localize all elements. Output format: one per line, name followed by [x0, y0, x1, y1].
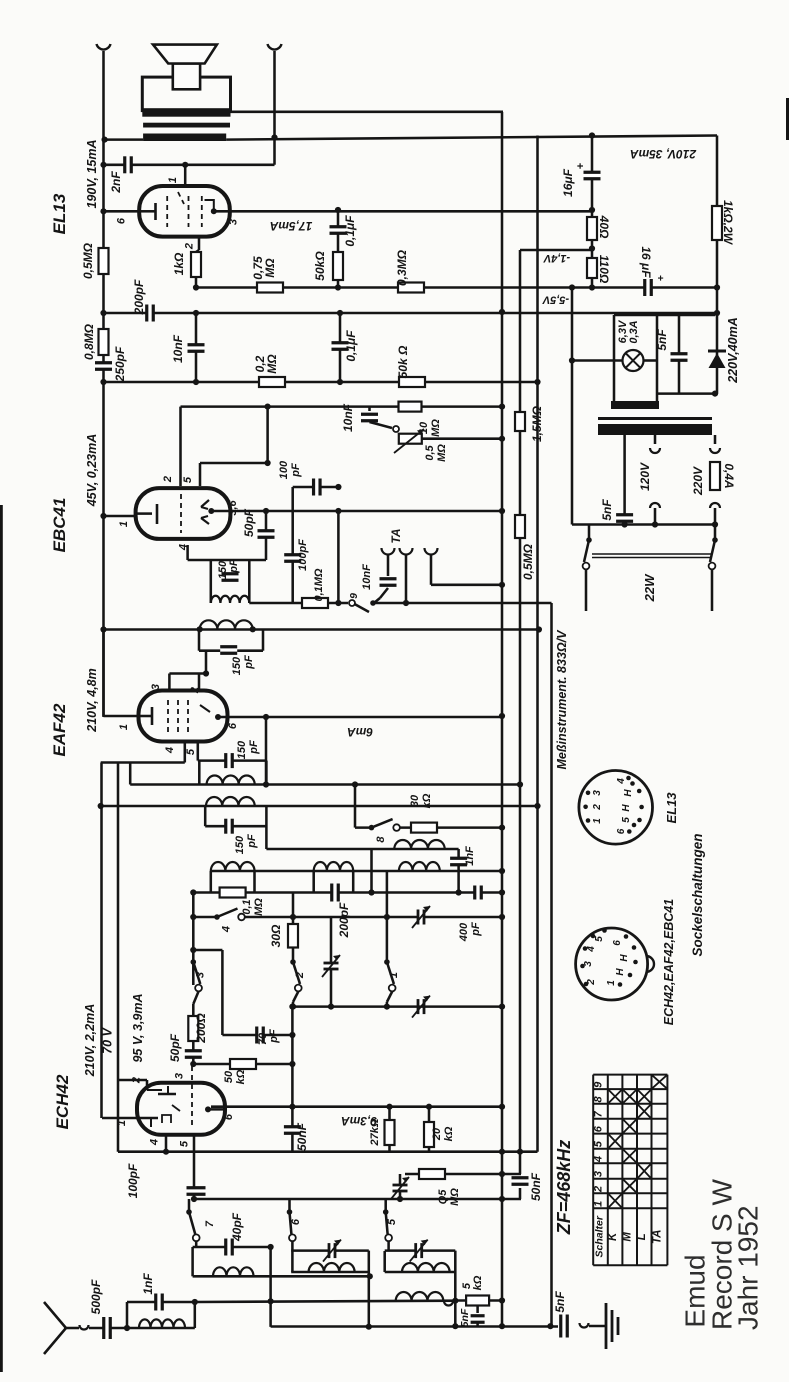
svg-text:0,1μF: 0,1μF	[343, 215, 357, 247]
svg-text:50: 50	[223, 1070, 235, 1083]
svg-text:MΩ: MΩ	[253, 898, 265, 916]
svg-text:3: 3	[592, 790, 603, 796]
svg-text:50nF: 50nF	[529, 1172, 543, 1201]
svg-text:0,5MΩ: 0,5MΩ	[81, 242, 95, 279]
svg-text:250pF: 250pF	[113, 346, 127, 382]
svg-text:4: 4	[586, 946, 597, 953]
svg-text:2: 2	[294, 972, 306, 979]
svg-text:1: 1	[593, 1201, 605, 1207]
svg-text:Jahr 1952: Jahr 1952	[733, 1205, 764, 1330]
svg-text:0,1MΩ: 0,1MΩ	[313, 568, 325, 601]
svg-text:MΩ: MΩ	[449, 1188, 461, 1206]
svg-text:5: 5	[185, 748, 197, 755]
svg-text:6: 6	[223, 1113, 235, 1120]
svg-text:50pF: 50pF	[242, 508, 256, 537]
svg-text:-1,4V: -1,4V	[542, 252, 570, 264]
svg-text:H: H	[623, 789, 634, 797]
svg-text:5: 5	[179, 1140, 191, 1147]
svg-text:H: H	[621, 804, 632, 812]
svg-text:50nF: 50nF	[295, 1122, 309, 1151]
svg-text:ZF=468kHz: ZF=468kHz	[554, 1140, 574, 1236]
svg-text:6mA: 6mA	[347, 725, 373, 739]
svg-text:Q5: Q5	[437, 1189, 449, 1205]
svg-text:0,3A: 0,3A	[628, 320, 640, 343]
svg-text:pF: pF	[243, 655, 255, 670]
svg-text:kΩ: kΩ	[235, 1069, 247, 1084]
svg-text:2: 2	[162, 476, 174, 483]
svg-text:2: 2	[130, 1077, 142, 1084]
svg-text:110Ω: 110Ω	[597, 255, 611, 284]
svg-text:ECH42,EAF42,EBC41: ECH42,EAF42,EBC41	[662, 899, 676, 1025]
svg-text:95 V, 3,9mA: 95 V, 3,9mA	[131, 993, 145, 1062]
svg-text:0,1: 0,1	[241, 899, 253, 914]
svg-text:+: +	[575, 163, 587, 169]
svg-text:150: 150	[234, 835, 246, 854]
svg-text:Meßinstrument. 833Ω/V: Meßinstrument. 833Ω/V	[555, 629, 569, 770]
svg-text:TA: TA	[651, 1230, 663, 1244]
svg-text:6: 6	[290, 1218, 302, 1225]
svg-text:40Ω: 40Ω	[597, 215, 611, 239]
svg-text:6: 6	[227, 722, 239, 729]
svg-text:22W: 22W	[642, 573, 657, 602]
svg-text:150: 150	[236, 740, 248, 759]
svg-text:5nF: 5nF	[655, 329, 669, 351]
svg-text:16 μF: 16 μF	[639, 246, 653, 278]
svg-text:6: 6	[616, 828, 627, 834]
svg-text:10nF: 10nF	[361, 564, 373, 590]
svg-text:0,5MΩ: 0,5MΩ	[521, 543, 535, 580]
svg-text:0,1μF: 0,1μF	[344, 330, 358, 362]
svg-text:100pF: 100pF	[126, 1163, 140, 1198]
svg-text:5nF: 5nF	[600, 499, 614, 521]
svg-text:2: 2	[586, 979, 597, 986]
svg-text:MΩ: MΩ	[263, 258, 277, 278]
svg-text:L: L	[636, 1233, 648, 1240]
svg-text:6: 6	[116, 217, 128, 224]
svg-text:pF: pF	[290, 463, 302, 478]
svg-text:5: 5	[386, 1218, 398, 1225]
svg-text:50k Ω: 50k Ω	[396, 345, 410, 378]
svg-text:Schalter: Schalter	[594, 1215, 606, 1257]
svg-text:0,4A: 0,4A	[722, 463, 736, 488]
svg-text:MΩ: MΩ	[436, 444, 448, 462]
svg-text:2: 2	[184, 243, 196, 250]
svg-text:500pF: 500pF	[89, 1279, 103, 1314]
svg-text:H: H	[619, 954, 630, 962]
svg-text:3: 3	[174, 1073, 186, 1079]
svg-text:4: 4	[164, 747, 176, 754]
svg-text:10nF: 10nF	[341, 403, 355, 432]
svg-text:1: 1	[118, 724, 130, 730]
svg-text:6: 6	[612, 940, 623, 946]
svg-text:kΩ: kΩ	[472, 1275, 484, 1290]
svg-text:16μF: 16μF	[561, 168, 575, 197]
svg-text:5: 5	[182, 476, 194, 483]
svg-text:1kΩ,2W: 1kΩ,2W	[721, 200, 735, 246]
svg-text:1nF: 1nF	[464, 846, 476, 866]
svg-text:1: 1	[388, 972, 400, 978]
svg-text:3: 3	[150, 684, 162, 690]
svg-text:100: 100	[278, 460, 290, 479]
svg-text:pF: pF	[228, 559, 240, 574]
svg-text:10nF: 10nF	[171, 334, 185, 363]
svg-text:8: 8	[375, 836, 387, 843]
svg-text:220V: 220V	[691, 466, 705, 496]
svg-text:pF: pF	[248, 740, 260, 755]
svg-text:kΩ: kΩ	[421, 793, 433, 808]
svg-text:1: 1	[606, 980, 617, 986]
svg-text:20: 20	[431, 1127, 443, 1141]
svg-text:27kΩ: 27kΩ	[369, 1118, 381, 1146]
svg-text:5: 5	[621, 817, 632, 823]
svg-text:200Ω: 200Ω	[194, 1013, 208, 1044]
svg-text:30: 30	[409, 794, 421, 807]
svg-text:2nF: 2nF	[109, 171, 123, 194]
svg-text:1: 1	[167, 177, 179, 183]
svg-text:3: 3	[583, 961, 594, 967]
svg-text:4: 4	[220, 926, 232, 933]
svg-text:EL13: EL13	[664, 792, 679, 824]
svg-text:45V, 0,23mA: 45V, 0,23mA	[85, 434, 99, 508]
svg-text:Sockelschaltungen: Sockelschaltungen	[690, 833, 705, 956]
svg-text:1: 1	[118, 521, 130, 527]
svg-text:210V, 2,2mA: 210V, 2,2mA	[83, 1004, 97, 1078]
svg-text:100pF: 100pF	[297, 539, 309, 571]
svg-text:9: 9	[348, 593, 360, 599]
svg-text:8: 8	[593, 1095, 605, 1102]
svg-text:3: 3	[227, 219, 239, 225]
svg-text:200pF: 200pF	[337, 902, 351, 938]
svg-text:5nF: 5nF	[553, 1291, 567, 1313]
svg-text:pF: pF	[246, 834, 258, 849]
svg-text:3,6: 3,6	[227, 499, 239, 515]
svg-text:EBC41: EBC41	[50, 498, 69, 553]
svg-text:pF: pF	[470, 922, 482, 937]
svg-text:ECH42: ECH42	[53, 1074, 72, 1129]
svg-text:+: +	[654, 275, 665, 281]
svg-text:17,5mA: 17,5mA	[270, 219, 313, 233]
svg-text:3: 3	[593, 1171, 605, 1177]
svg-text:0,5: 0,5	[424, 444, 436, 460]
svg-text:3: 3	[194, 972, 206, 978]
svg-text:220V,40mA: 220V,40mA	[726, 317, 740, 384]
svg-text:H: H	[615, 968, 626, 976]
svg-text:2: 2	[592, 804, 603, 811]
svg-text:4: 4	[616, 778, 627, 785]
svg-text:70 V: 70 V	[101, 1026, 115, 1053]
svg-text:5nF: 5nF	[459, 1308, 471, 1327]
svg-text:1nF: 1nF	[141, 1273, 155, 1295]
svg-text:-5,5V: -5,5V	[541, 294, 569, 306]
svg-text:2: 2	[189, 687, 201, 694]
svg-text:30Ω: 30Ω	[269, 924, 283, 947]
svg-text:1kΩ: 1kΩ	[172, 252, 186, 275]
svg-text:50pF: 50pF	[168, 1033, 182, 1062]
svg-text:190V, 15mA: 190V, 15mA	[85, 139, 99, 208]
svg-text:210V, 4,8m: 210V, 4,8m	[85, 668, 99, 732]
svg-text:0,8MΩ: 0,8MΩ	[82, 323, 96, 360]
svg-text:0,3MΩ: 0,3MΩ	[395, 249, 409, 286]
svg-text:150: 150	[231, 656, 243, 675]
svg-text:MΩ: MΩ	[265, 354, 279, 374]
svg-text:4: 4	[593, 1156, 605, 1163]
svg-text:MΩ: MΩ	[430, 419, 442, 437]
svg-text:400: 400	[458, 922, 470, 942]
svg-text:200pF: 200pF	[132, 279, 146, 315]
svg-text:7: 7	[593, 1110, 605, 1117]
svg-text:5: 5	[593, 1140, 605, 1147]
svg-text:40pF: 40pF	[230, 1212, 244, 1242]
svg-text:TA: TA	[389, 528, 403, 543]
svg-text:M: M	[622, 1232, 634, 1242]
svg-text:kΩ: kΩ	[443, 1126, 455, 1141]
svg-text:1: 1	[116, 1120, 128, 1126]
svg-text:EL13: EL13	[50, 193, 69, 234]
svg-text:7: 7	[204, 1220, 216, 1227]
svg-text:9: 9	[593, 1081, 605, 1088]
svg-text:120V: 120V	[638, 462, 652, 491]
svg-text:210V, 35mA: 210V, 35mA	[630, 147, 697, 161]
svg-text:1: 1	[592, 818, 603, 824]
svg-text:5: 5	[594, 936, 605, 942]
svg-text:4: 4	[148, 1139, 160, 1146]
svg-text:50kΩ: 50kΩ	[313, 251, 327, 281]
svg-text:pF: pF	[268, 1029, 280, 1044]
svg-text:K: K	[607, 1232, 619, 1241]
svg-text:2: 2	[593, 1186, 605, 1193]
svg-text:EAF42: EAF42	[50, 703, 69, 756]
svg-text:6: 6	[593, 1125, 605, 1132]
